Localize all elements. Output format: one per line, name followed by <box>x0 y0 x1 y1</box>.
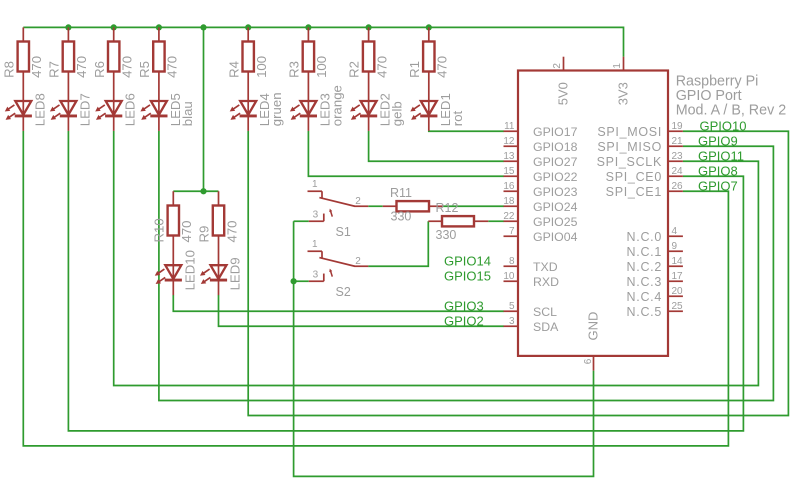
wire net LED2 anode to GPIO27 pin 13 <box>369 131 504 161</box>
resistor R2 <box>363 27 374 101</box>
svg-text:22: 22 <box>503 211 515 222</box>
svg-text:GPIO11: GPIO11 <box>698 149 744 164</box>
resistor R1 <box>423 27 434 101</box>
svg-text:12: 12 <box>503 136 515 147</box>
pin 16 left <box>503 181 517 192</box>
svg-text:R7: R7 <box>47 61 62 78</box>
svg-text:R11: R11 <box>390 186 412 200</box>
LED LED10 <box>156 265 182 295</box>
svg-text:GPIO14: GPIO14 <box>444 254 491 269</box>
svg-text:470: 470 <box>165 56 180 78</box>
svg-text:470: 470 <box>435 56 450 78</box>
svg-text:Mod. A / B, Rev 2: Mod. A / B, Rev 2 <box>676 103 787 119</box>
resistor R11 <box>383 201 443 211</box>
LED LED3 <box>291 101 317 131</box>
pin 11 left <box>504 121 518 132</box>
LED LED6 <box>96 101 122 131</box>
svg-text:5: 5 <box>509 301 515 312</box>
pin 3 left <box>504 316 518 327</box>
svg-text:GND: GND <box>586 312 601 341</box>
switch S1 <box>308 191 369 221</box>
svg-text:GPIO15: GPIO15 <box>444 269 491 284</box>
IC U1 Raspberry Pi GPIO Port <box>518 71 668 356</box>
LED LED8 <box>6 101 32 131</box>
svg-text:blau: blau <box>180 101 195 126</box>
pin 17 right <box>669 271 683 282</box>
pin 18 left <box>503 196 517 207</box>
svg-text:GPIO04: GPIO04 <box>533 230 578 244</box>
svg-text:1: 1 <box>312 239 318 250</box>
LED LED2 <box>351 101 377 131</box>
pin 22 left <box>503 211 517 222</box>
wire net LED8 anode to GPIO7 pin 26 <box>23 131 728 446</box>
pin 15 left <box>503 166 517 177</box>
pin 12 left <box>503 136 517 147</box>
svg-text:R5: R5 <box>137 61 152 78</box>
pin 26 right <box>669 181 683 192</box>
svg-text:470: 470 <box>120 56 135 78</box>
pin 14 right <box>669 256 683 267</box>
pin 19 right <box>669 121 683 132</box>
junction rail R1 <box>426 24 432 30</box>
junction rail R3 <box>305 24 311 30</box>
svg-text:GPIO22: GPIO22 <box>533 170 578 184</box>
svg-text:S2: S2 <box>336 285 351 299</box>
resistor R9 <box>213 191 224 265</box>
wire net LED7 anode to GPIO8 pin 24 <box>68 131 743 431</box>
junction rail branch <box>200 24 206 30</box>
svg-text:Raspberry Pi: Raspberry Pi <box>676 73 759 89</box>
svg-text:N.C.3: N.C.3 <box>627 275 662 289</box>
svg-text:SCL: SCL <box>533 305 557 319</box>
wire S2 pin 2 to R12 <box>368 221 428 266</box>
svg-text:3: 3 <box>313 210 319 221</box>
svg-text:9: 9 <box>672 241 678 252</box>
pin 8 left <box>504 256 518 267</box>
svg-text:330: 330 <box>436 228 457 242</box>
LED LED4 <box>230 101 256 131</box>
pin 7 left <box>504 226 518 237</box>
resistor R7 <box>63 27 74 101</box>
svg-text:N.C.2: N.C.2 <box>627 260 662 274</box>
svg-text:17: 17 <box>672 271 684 282</box>
wire net LED9 to GPIO2 pin 3 SDA <box>219 295 504 326</box>
svg-text:orange: orange <box>329 85 344 126</box>
svg-text:GPIO9: GPIO9 <box>698 134 738 149</box>
svg-text:SPI_SCLK: SPI_SCLK <box>597 155 662 169</box>
svg-text:3: 3 <box>509 316 515 327</box>
svg-text:GPIO27: GPIO27 <box>533 155 578 169</box>
svg-text:N.C.0: N.C.0 <box>627 230 662 244</box>
wire net LED6 anode to GPIO11 pin 23 <box>114 131 759 386</box>
LED LED7 <box>51 101 77 131</box>
svg-text:6: 6 <box>583 358 594 364</box>
svg-text:GPIO7: GPIO7 <box>698 179 738 194</box>
wire S2 pin 3 stub <box>294 280 309 282</box>
svg-text:24: 24 <box>672 166 684 177</box>
svg-text:23: 23 <box>672 151 684 162</box>
pin 9 right <box>669 241 683 252</box>
svg-text:GPIO Port: GPIO Port <box>676 88 742 104</box>
svg-text:LED8: LED8 <box>32 93 47 126</box>
svg-text:2: 2 <box>355 256 361 267</box>
svg-text:N.C.4: N.C.4 <box>627 290 662 304</box>
switch S2 <box>308 251 369 281</box>
resistor R3 <box>303 27 314 101</box>
svg-text:SPI_MISO: SPI_MISO <box>597 140 662 154</box>
svg-text:SPI_CE1: SPI_CE1 <box>606 185 662 199</box>
svg-text:GPIO8: GPIO8 <box>698 164 738 179</box>
svg-text:LED7: LED7 <box>77 93 92 126</box>
svg-text:gruen: gruen <box>269 92 284 126</box>
svg-text:SDA: SDA <box>533 320 559 334</box>
svg-text:3V3: 3V3 <box>616 82 631 105</box>
svg-text:SPI_MOSI: SPI_MOSI <box>597 125 662 139</box>
svg-text:R6: R6 <box>92 61 107 78</box>
junction rail R5 <box>156 24 162 30</box>
junction R10/R9 rail <box>200 188 206 194</box>
LED LED1 <box>411 101 437 131</box>
svg-text:R1: R1 <box>407 61 422 78</box>
wire net LED4 anode to GPIO10 pin 19 <box>248 131 788 416</box>
resistor R8 <box>18 27 29 101</box>
svg-text:18: 18 <box>503 196 515 207</box>
pin 5 left <box>504 301 518 312</box>
svg-text:LED10: LED10 <box>182 250 197 290</box>
svg-text:4: 4 <box>672 226 678 237</box>
svg-text:19: 19 <box>672 121 684 132</box>
svg-text:14: 14 <box>672 256 684 267</box>
svg-text:330: 330 <box>391 209 412 223</box>
pin 2 top 5V0 <box>552 57 564 70</box>
svg-text:470: 470 <box>374 56 389 78</box>
svg-text:26: 26 <box>672 181 684 192</box>
svg-text:5V0: 5V0 <box>556 82 571 105</box>
svg-text:GPIO18: GPIO18 <box>533 140 578 154</box>
svg-text:1: 1 <box>612 63 623 69</box>
wire net LED1 anode to GPIO17 pin 11 <box>429 130 504 132</box>
svg-text:GPIO10: GPIO10 <box>700 119 747 134</box>
pin 13 left <box>503 151 517 162</box>
resistor R5 <box>153 27 164 101</box>
svg-text:21: 21 <box>672 136 684 147</box>
svg-text:S1: S1 <box>336 225 351 239</box>
svg-text:16: 16 <box>503 181 515 192</box>
svg-text:25: 25 <box>672 301 684 312</box>
svg-text:1: 1 <box>312 179 318 190</box>
LED LED5 <box>141 101 167 131</box>
svg-text:R2: R2 <box>347 61 362 78</box>
pin 4 right <box>669 226 683 237</box>
svg-text:R9: R9 <box>197 226 212 243</box>
svg-text:R4: R4 <box>226 61 241 78</box>
svg-text:13: 13 <box>503 151 515 162</box>
svg-text:N.C.5: N.C.5 <box>627 305 662 319</box>
junction rail R7 <box>65 24 71 30</box>
wire R10/R9 supply rail <box>173 190 218 192</box>
svg-text:SPI_CE0: SPI_CE0 <box>606 170 662 184</box>
pin 21 right <box>669 136 683 147</box>
resistor R4 <box>243 27 254 101</box>
svg-text:3: 3 <box>313 270 319 281</box>
pin 25 right <box>669 301 683 312</box>
svg-text:100: 100 <box>254 56 269 78</box>
svg-text:100: 100 <box>314 56 329 78</box>
junction rail R2 <box>366 24 372 30</box>
svg-text:TXD: TXD <box>533 260 558 274</box>
pin 6 bottom GND <box>583 356 594 371</box>
wire net LED5 anode to GPIO9 pin 21 <box>159 131 774 401</box>
svg-text:GPIO3: GPIO3 <box>444 299 484 314</box>
svg-text:LED9: LED9 <box>228 257 243 290</box>
svg-text:N.C.1: N.C.1 <box>627 245 662 259</box>
wire R11 to GPIO24 pin 18 <box>443 205 504 207</box>
wire net LED10 to GPIO3 pin 5 SCL <box>173 295 504 311</box>
pin 20 right <box>669 286 683 297</box>
svg-text:470: 470 <box>29 56 44 78</box>
pin 10 left <box>503 271 517 282</box>
svg-text:470: 470 <box>179 220 194 242</box>
svg-text:7: 7 <box>509 226 515 237</box>
resistor R6 <box>108 27 119 101</box>
svg-text:20: 20 <box>672 286 684 297</box>
svg-text:2: 2 <box>355 196 361 207</box>
svg-text:R8: R8 <box>1 61 16 78</box>
svg-text:GPIO24: GPIO24 <box>533 200 578 214</box>
svg-text:8: 8 <box>509 256 515 267</box>
svg-text:11: 11 <box>504 121 515 132</box>
junction rail R6 <box>111 24 117 30</box>
svg-text:470: 470 <box>224 220 239 242</box>
svg-text:R10: R10 <box>151 218 166 242</box>
svg-text:2: 2 <box>552 63 563 69</box>
svg-text:R3: R3 <box>287 61 302 78</box>
pin 23 right <box>669 151 683 162</box>
svg-text:GPIO2: GPIO2 <box>444 314 484 329</box>
svg-text:15: 15 <box>503 166 515 177</box>
svg-text:470: 470 <box>74 56 89 78</box>
wire 3V3 top rail to IC pin 1 <box>23 27 623 56</box>
svg-text:R12: R12 <box>436 201 459 215</box>
svg-text:gelb: gelb <box>390 101 405 126</box>
junction S2 pin 3 common <box>291 278 297 284</box>
svg-text:GPIO23: GPIO23 <box>533 185 578 199</box>
LED LED9 <box>201 265 227 295</box>
pin 1 top 3V3 <box>612 57 624 70</box>
wire 3V3 branch to R10/R9 rail <box>203 27 205 191</box>
wire S1 pin 2 to R11 <box>368 205 382 207</box>
pin 24 right <box>669 166 683 177</box>
resistor R12 <box>428 216 488 226</box>
label Raspberry Pi GPIO Port title <box>676 73 787 118</box>
wire switch common to GND pin 6 <box>294 221 594 476</box>
resistor R10 <box>168 191 179 265</box>
wire S1 pin 3 stub <box>294 220 309 222</box>
wire R12 to GPIO25 pin 22 <box>488 220 504 222</box>
junction rail R4 <box>245 24 251 30</box>
svg-text:LED6: LED6 <box>123 93 138 126</box>
svg-text:GPIO25: GPIO25 <box>533 215 578 229</box>
svg-text:rot: rot <box>450 110 465 126</box>
svg-text:GPIO17: GPIO17 <box>533 125 578 139</box>
svg-text:RXD: RXD <box>533 275 559 289</box>
svg-text:10: 10 <box>503 271 515 282</box>
wire net LED3 anode to GPIO22 pin 15 <box>308 131 503 176</box>
